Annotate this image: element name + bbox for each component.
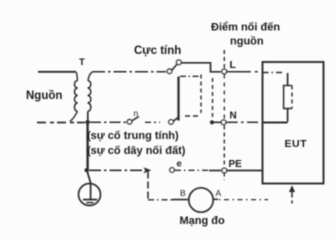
- svg-text:n: n: [134, 108, 139, 118]
- svg-text:B: B: [180, 188, 186, 198]
- svg-text:(sự cố dây nối đất): (sự cố dây nối đất): [87, 145, 186, 157]
- svg-text:(sự cố trung tính): (sự cố trung tính): [87, 130, 179, 142]
- svg-text:nguồn: nguồn: [230, 36, 264, 48]
- svg-text:Mạng đo: Mạng đo: [180, 215, 225, 227]
- svg-text:A: A: [216, 188, 222, 198]
- svg-text:N: N: [230, 111, 237, 122]
- svg-text:Nguồn: Nguồn: [26, 90, 62, 102]
- svg-text:Cực tính: Cực tính: [134, 45, 181, 57]
- svg-text:e: e: [177, 159, 182, 170]
- svg-text:EUT: EUT: [285, 138, 308, 150]
- svg-text:T: T: [79, 57, 85, 68]
- svg-text:L: L: [230, 59, 237, 71]
- svg-text:Điểm nối đến: Điểm nối đến: [211, 22, 280, 34]
- svg-text:PE: PE: [229, 159, 243, 170]
